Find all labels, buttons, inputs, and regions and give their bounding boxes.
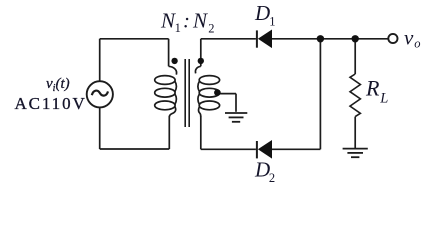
wire RL branch top <box>354 39 356 74</box>
wire top rail left (primary loop top) <box>100 38 169 40</box>
diode D1 triangle <box>258 30 272 49</box>
wire RL branch bottom <box>354 117 356 149</box>
ground (center tap) bar 3 <box>232 121 240 123</box>
transformer secondary connector 2-3 <box>198 94 200 105</box>
phase dot secondary <box>198 58 204 64</box>
diode D2 triangle <box>258 140 272 159</box>
resistor RL zigzag <box>350 74 360 117</box>
phase dot primary <box>171 58 177 64</box>
transformer primary entry curve <box>169 66 177 74</box>
junction node dot B <box>352 35 359 42</box>
wire bottom rail from secondary to D2 <box>201 148 256 150</box>
transformer secondary connector 1-2 <box>198 81 200 92</box>
svg-text:vi(t): vi(t) <box>46 76 70 94</box>
transformer primary loop 2 <box>155 88 175 97</box>
ground (center tap) bar 2 <box>229 116 244 118</box>
diode D2 cathode bar <box>256 141 258 158</box>
transformer secondary entry curve <box>195 66 200 73</box>
output terminal vo circle <box>388 34 397 43</box>
transformer secondary exit curve <box>199 107 201 117</box>
junction node dot A <box>317 35 324 42</box>
wire center tap horizontal <box>217 93 236 95</box>
transformer T1 secondary winding stub top <box>200 39 202 67</box>
transformer secondary loop 1 <box>199 76 219 85</box>
ground (center tap) bar 1 <box>225 112 247 114</box>
wire bottom rail from D2 to right vertical <box>272 148 320 150</box>
wire left vertical lower <box>99 107 101 149</box>
AC source V1 circle <box>87 81 113 107</box>
wire top rail from secondary to D1 <box>201 38 256 40</box>
transformer primary loop 3 <box>155 101 175 110</box>
wire center tap vertical <box>235 94 237 112</box>
ground (RL) bar 3 <box>351 156 359 158</box>
svg-text:AC110V: AC110V <box>15 94 87 113</box>
transformer secondary loop 2 <box>199 88 219 97</box>
AC source sine symbol <box>92 91 108 96</box>
transformer primary loop 1 <box>155 76 175 85</box>
svg-text:N1:N2: N1:N2 <box>160 9 214 36</box>
transformer primary exit curve <box>169 107 175 117</box>
transformer primary connector 1-2 <box>175 81 177 92</box>
center tap node dot <box>214 89 221 96</box>
transformer core line left <box>184 59 186 127</box>
wire bottom rail left (primary loop bottom) <box>100 148 170 150</box>
transformer secondary winding stub bottom <box>200 117 202 150</box>
transformer primary winding stub bottom <box>168 117 170 150</box>
transformer T1 primary winding stub top <box>168 39 170 67</box>
wire top rail from D1 to output terminal <box>272 38 388 40</box>
wire right vertical (D rails connector) <box>319 39 321 150</box>
wire left vertical upper <box>99 39 101 82</box>
ground (RL) bar 2 <box>347 152 363 154</box>
transformer core line right <box>188 59 190 127</box>
diode D1 cathode bar <box>256 30 258 47</box>
ground (RL) bar 1 <box>343 148 368 150</box>
transformer secondary loop 3 <box>199 101 219 110</box>
transformer primary connector 2-3 <box>175 94 177 105</box>
